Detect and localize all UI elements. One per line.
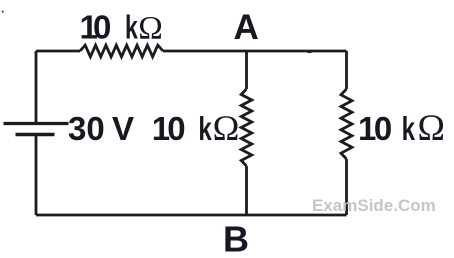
wire: top segment from R1 to node A [163, 50, 247, 53]
svg-text:V: V [112, 110, 134, 147]
value label R2: 10 kΩ [152, 108, 240, 148]
wire: middle branch from node A down to R2 [245, 51, 248, 89]
svg-text:30: 30 [68, 110, 105, 147]
node A [234, 8, 259, 47]
svg-text:ExamSide.Com: ExamSide.Com [312, 196, 436, 215]
wire: top-left segment [36, 50, 80, 53]
svg-text:k: k [198, 111, 212, 148]
svg-text:0: 0 [93, 8, 111, 45]
svg-text:Ω: Ω [213, 108, 240, 148]
value label R3: 10 kΩ [358, 108, 445, 149]
svg-text:0: 0 [167, 110, 185, 147]
wire: left segment from top-left corner down to battery [35, 51, 38, 123]
wire: bottom segment from bottom-left corner to node B [36, 214, 247, 217]
svg-text:A: A [234, 8, 259, 47]
wire: right segment from top-right corner down to R3 [345, 51, 348, 89]
resistor R3 (right, vertical) [341, 89, 352, 159]
wire: left segment from battery to bottom-left corner [35, 135, 38, 215]
wire: bottom segment from node B to bottom-right corner [247, 214, 347, 217]
svg-text:Ω: Ω [138, 10, 163, 46]
junction mark on top wire [306, 50, 312, 53]
svg-text:k: k [125, 9, 138, 46]
svg-text:Ω: Ω [418, 108, 446, 149]
svg-text:B: B [223, 219, 249, 258]
value label V1: 30 V [68, 110, 134, 147]
wire: right segment from R3 down to bottom-right corner [345, 159, 348, 215]
watermark [312, 196, 436, 215]
wire: top segment from node A to top-right corner [247, 50, 347, 53]
node B [223, 219, 249, 258]
svg-text:0: 0 [374, 110, 392, 147]
resistor R1 (top, horizontal) [80, 45, 163, 57]
wire: middle branch from R2 down to node B [245, 166, 248, 215]
resistor R2 (middle, vertical) [241, 89, 252, 166]
svg-text:k: k [402, 111, 416, 148]
battery V1 (30 V) [4, 124, 69, 135]
value label R1: 10 kΩ [80, 8, 163, 46]
